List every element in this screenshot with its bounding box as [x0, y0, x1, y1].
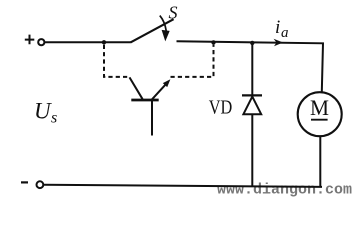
svg-text:S: S: [169, 2, 178, 22]
wire: dashed collector link (down then right): [104, 45, 130, 77]
svg-text:U: U: [34, 99, 52, 124]
switch S actuation arrow: [160, 16, 166, 31]
node: junction dot at collector dashed branch: [102, 40, 106, 44]
svg-text:VD: VD: [209, 97, 233, 119]
diode VD cathode bar: [242, 94, 262, 96]
wire: + terminal to switch hinge: [45, 41, 131, 43]
wire: dashed emitter link (right then up): [171, 45, 214, 77]
svg-text:i: i: [275, 17, 280, 38]
wire: switch to motor corner (top right rail): [177, 41, 324, 92]
diode VD triangle: [243, 97, 261, 115]
transistor base bar: [131, 99, 158, 102]
transistor emitter diagonal with arrow: [152, 83, 167, 99]
svg-text:s: s: [51, 110, 57, 127]
wire: diode bottom lead: [251, 114, 253, 187]
svg-text:M: M: [310, 95, 329, 120]
transistor base lead: [151, 101, 153, 136]
transistor (collector diagonal): [130, 77, 143, 99]
svg-text:a: a: [281, 25, 289, 41]
node: junction dot at emitter dashed branch: [211, 40, 215, 44]
wire: bottom rail: [44, 185, 322, 187]
motor M1 circle: [298, 92, 342, 136]
node: junction dot at diode branch: [250, 41, 254, 45]
current arrow i_a: [274, 39, 283, 47]
motor label underline: [311, 119, 328, 121]
plus terminal label +: [25, 35, 35, 45]
minus terminal circle: [37, 181, 44, 188]
wire: diode top lead: [251, 43, 253, 95]
plus terminal circle: [38, 39, 44, 45]
minus terminal label -: [21, 181, 28, 183]
svg-text:www.diangon.com: www.diangon.com: [217, 182, 352, 199]
switch S blade: [131, 19, 174, 42]
wire: motor bottom lead: [319, 137, 321, 188]
